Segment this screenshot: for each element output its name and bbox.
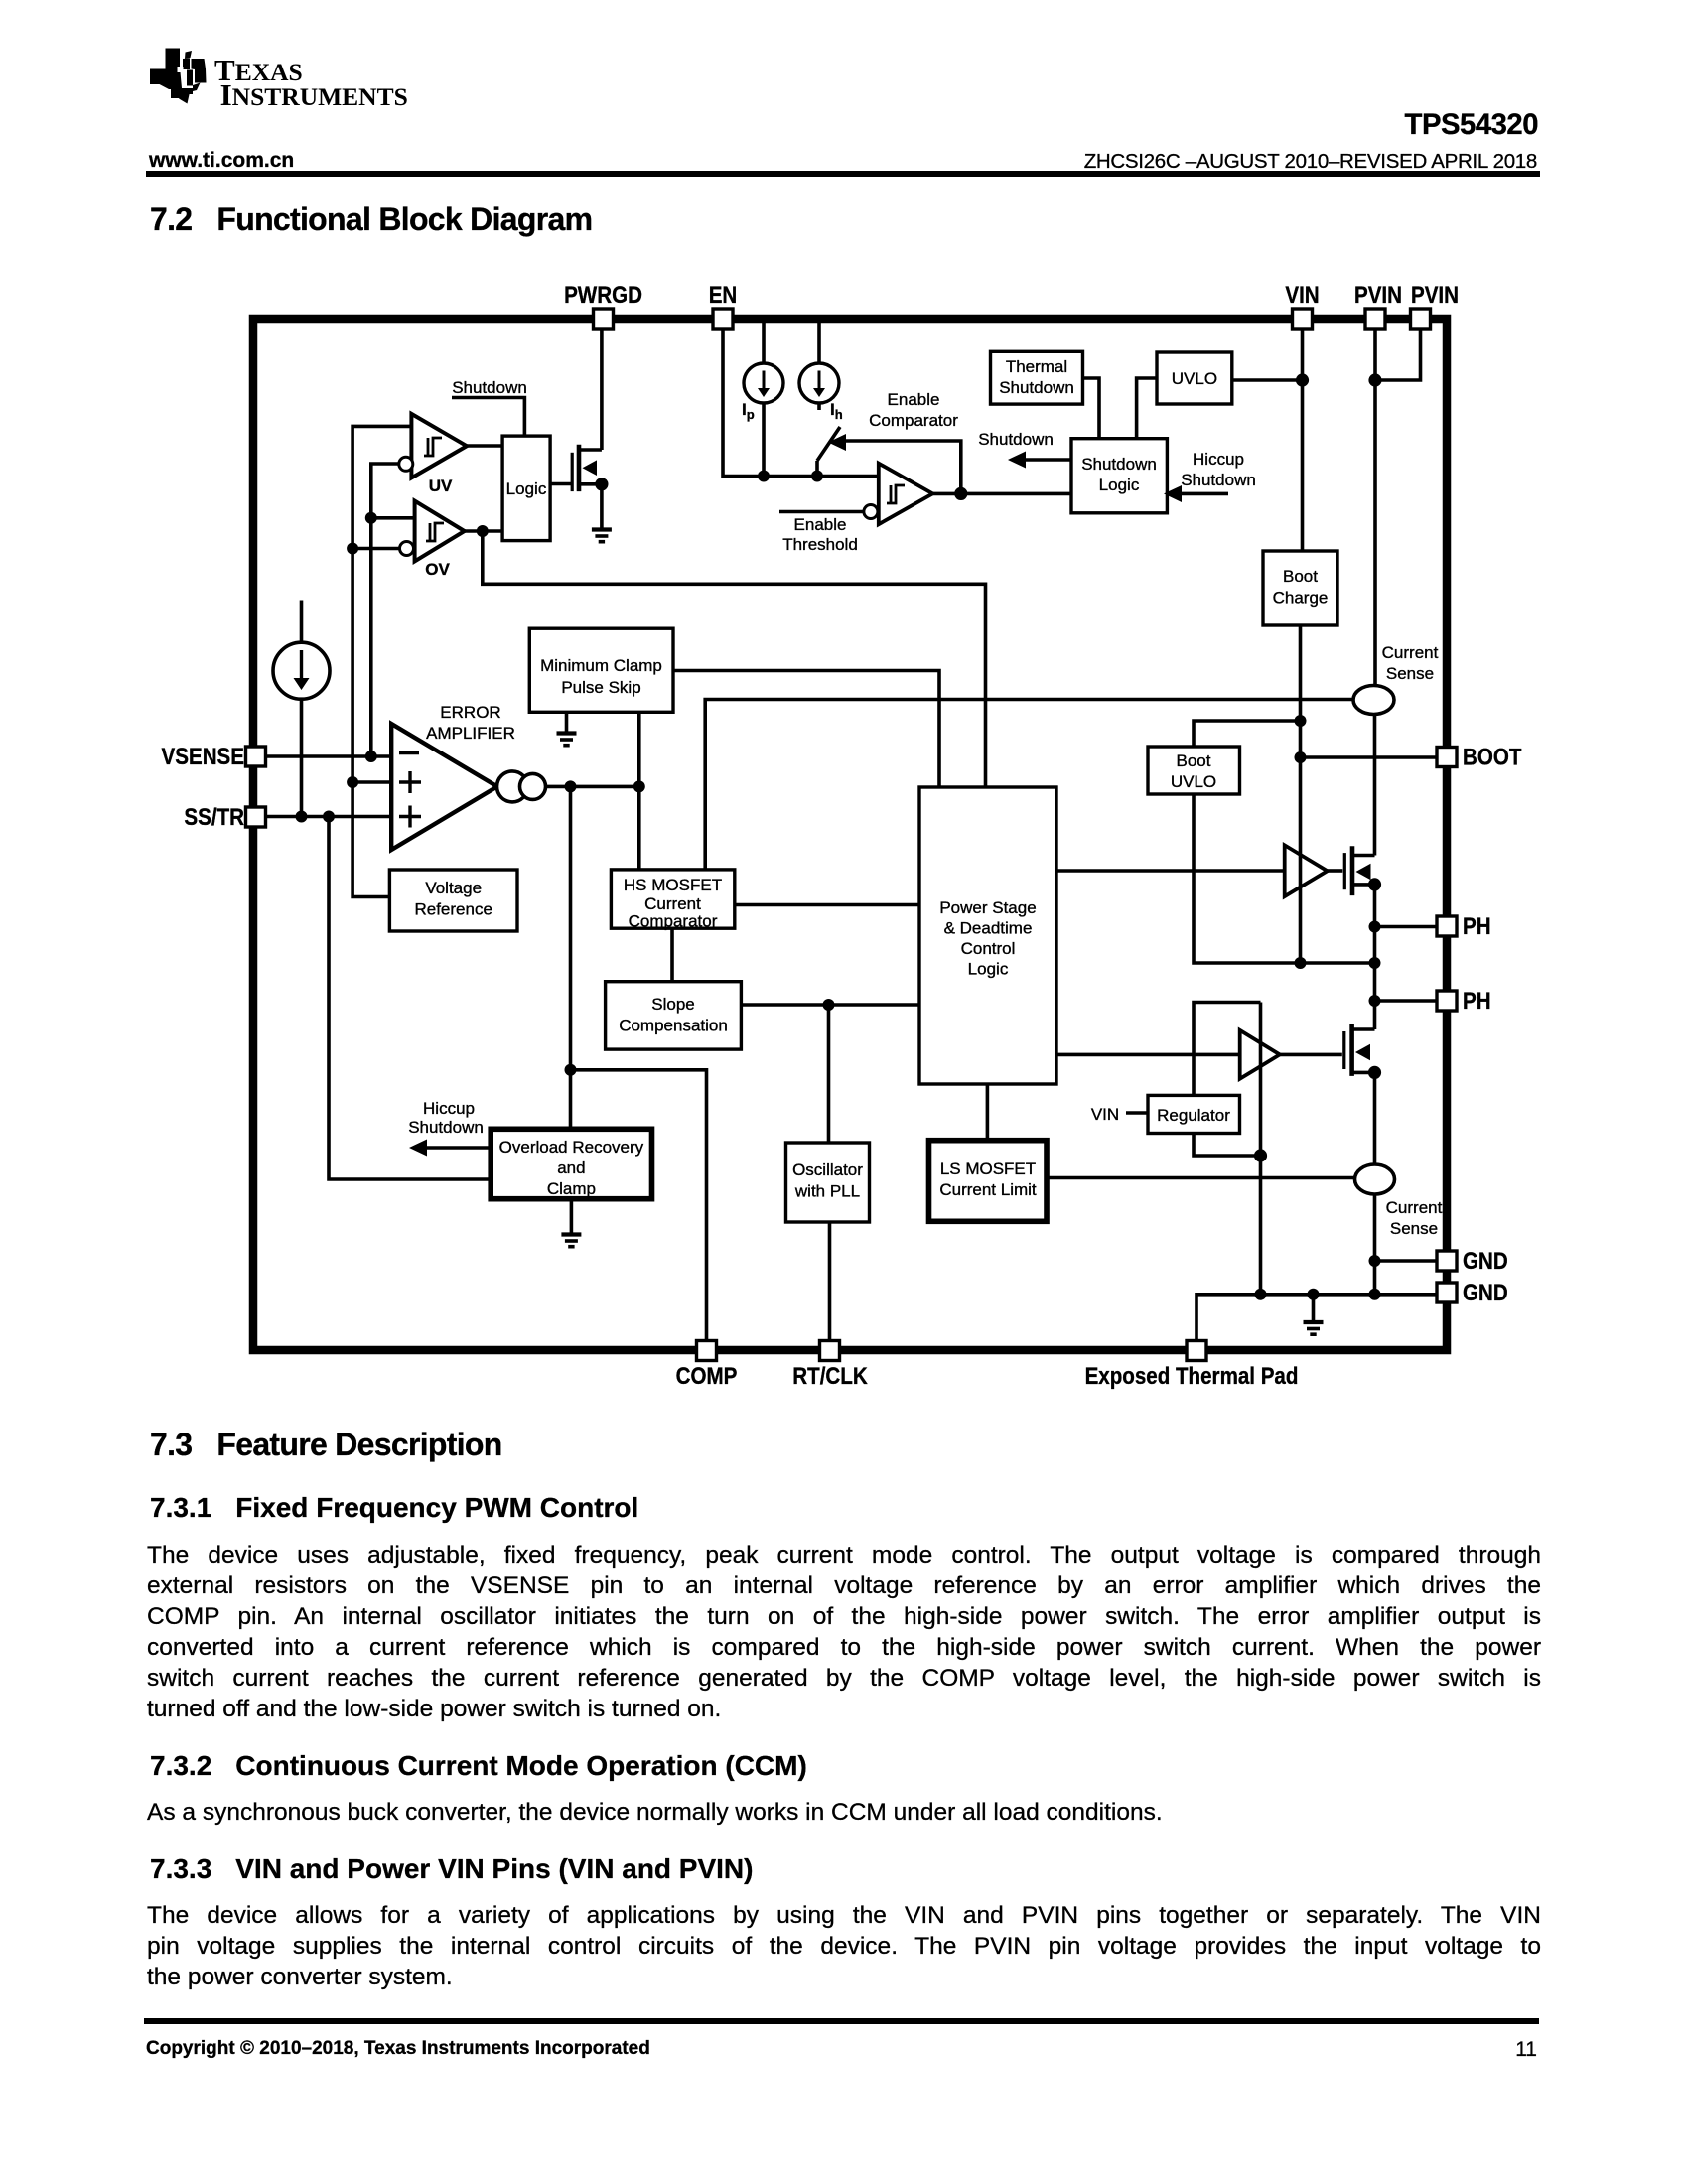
node: GND1 (1369, 1255, 1381, 1267)
svg-text:HS MOSFET: HS MOSFET (624, 876, 722, 894)
svg-text:Shutdown: Shutdown (452, 378, 527, 397)
wire: VIN label to regulator (1126, 1111, 1148, 1115)
node: OV output branch (477, 525, 489, 537)
svg-text:Logic: Logic (968, 960, 1009, 979)
wire: logic to PWRGD gate (550, 482, 572, 486)
svg-text:Current: Current (1386, 1198, 1443, 1217)
wire: VSENSE up to UV bubble (371, 464, 399, 756)
current sense CT1 (high side) (1353, 686, 1394, 715)
node: COMP tee (565, 1064, 577, 1076)
svg-text:EN: EN (709, 281, 738, 308)
driver A1 (high side) (1285, 845, 1328, 896)
node: Q3 source (1368, 1066, 1381, 1079)
node: regulator return / GND (1255, 1289, 1267, 1300)
svg-text:ERROR: ERROR (440, 703, 500, 722)
wire: boot UVLO bottom to PH node (1194, 794, 1375, 963)
current source Ip (744, 363, 783, 403)
svg-text:Ip: Ip (742, 400, 755, 422)
svg-text:SS/TR: SS/TR (184, 803, 244, 830)
svg-text:Voltage: Voltage (425, 879, 482, 897)
transistor Q2 (HS power MOSFET) (1344, 846, 1374, 895)
svg-text:Sense: Sense (1390, 1219, 1438, 1238)
HS mosfet current comparator block (611, 870, 734, 928)
wire: PVIN rail below current sense (1373, 715, 1377, 856)
pin PVIN (2) (1411, 309, 1431, 329)
pin BOOT (1437, 748, 1457, 767)
pin SS/TR (246, 807, 266, 827)
svg-text:LS MOSFET: LS MOSFET (940, 1160, 1036, 1178)
svg-text:with PLL: with PLL (794, 1182, 860, 1201)
wire: EA + input branch (352, 780, 391, 784)
svg-text:Charge: Charge (1273, 589, 1329, 608)
node: EN / Ih switch (811, 471, 823, 482)
svg-text:Slope: Slope (651, 995, 694, 1014)
svg-text:Boot: Boot (1283, 567, 1318, 586)
OV inverting bubble (400, 542, 414, 556)
wire: GND2 line to exposed thermal pad (1196, 1295, 1437, 1341)
wire: Ip top stub (762, 323, 766, 363)
svg-text:Reference: Reference (414, 900, 492, 919)
wire: GND1 pin line (1375, 1259, 1438, 1263)
voltage reference block (389, 870, 517, 931)
wire: slope compensation to power stage (741, 1003, 919, 1007)
svg-text:Power Stage: Power Stage (939, 898, 1036, 917)
wire: GND2 ground stub (1312, 1295, 1316, 1321)
svg-text:RT/CLK: RT/CLK (792, 1362, 868, 1389)
wire: PVIN rail (1373, 329, 1377, 686)
svg-text:UV: UV (429, 477, 453, 495)
node: PH1 (1369, 921, 1381, 933)
section 7.2 heading (150, 202, 592, 238)
svg-text:PH: PH (1463, 987, 1491, 1014)
shutdown logic block (1071, 439, 1167, 513)
device outline box (253, 319, 1447, 1350)
pin RT/CLK (820, 1341, 840, 1361)
wire: PH1 pin line (1375, 925, 1438, 929)
svg-text:Control: Control (961, 939, 1016, 958)
node: rail / GND2 (1369, 1289, 1381, 1300)
svg-text:& Deadtime: & Deadtime (944, 919, 1033, 938)
svg-text:Current: Current (1382, 643, 1439, 662)
wire: switch-node rail (1373, 885, 1377, 1029)
wire: power stage to LS current limit (986, 1084, 990, 1141)
wire: power stage to LS driver (1056, 1053, 1240, 1057)
boot charge block (1263, 551, 1337, 625)
wire: EN pin to enable comparator (723, 329, 879, 477)
node: ground symbol tap (1308, 1289, 1320, 1300)
current source (soft start) (273, 642, 330, 699)
node: SS/TR current source (296, 811, 308, 823)
wire: OV bubble branch (352, 547, 399, 551)
wire: OV output to logic (465, 529, 502, 533)
svg-text:VIN: VIN (1091, 1105, 1119, 1124)
wire: VSENSE line (266, 754, 392, 758)
node: PH2 (1369, 995, 1381, 1007)
pin PWRGD (594, 309, 614, 329)
svg-text:VSENSE: VSENSE (162, 743, 244, 769)
svg-text:AMPLIFIER: AMPLIFIER (426, 724, 515, 743)
svg-text:Current: Current (644, 894, 701, 913)
svg-text:BOOT: BOOT (1463, 744, 1522, 770)
wire: SS current source to SS/TR line (300, 700, 304, 817)
svg-text:Clamp: Clamp (547, 1179, 596, 1198)
transistor Q3 (LS power MOSFET) (1344, 1024, 1375, 1076)
wire: thermal shutdown to shutdown logic (1083, 378, 1099, 439)
wire: comparator output feedback to switch (with arrow) (843, 441, 961, 493)
svg-text:COMP: COMP (676, 1362, 738, 1389)
comparator OV (415, 501, 465, 562)
svg-text:Compensation: Compensation (619, 1017, 728, 1035)
comparator UV (411, 414, 467, 478)
svg-text:Shutdown: Shutdown (1081, 455, 1157, 474)
error amplifier gm output symbol (497, 771, 528, 802)
regulator block (1148, 1095, 1240, 1133)
node: slope / oscillator (823, 999, 835, 1011)
wire: HS comparator to slope compensation (670, 928, 674, 982)
node: VIN / UVLO (1296, 373, 1309, 386)
oscillator with PLL block (786, 1143, 870, 1222)
svg-text:Thermal: Thermal (1006, 357, 1067, 376)
switch S1 blade (817, 427, 840, 477)
wire: boot rail below boot charge (1299, 625, 1303, 963)
wire: COMP pin branch (571, 1070, 707, 1341)
svg-text:PVIN: PVIN (1411, 281, 1459, 308)
node: boot rail / boot UVLO (1295, 715, 1307, 727)
node: boot rail / PH node (1295, 957, 1307, 969)
svg-text:Exposed Thermal Pad: Exposed Thermal Pad (1085, 1362, 1299, 1389)
node: enable comparator output (954, 487, 967, 500)
svg-text:and: and (557, 1159, 585, 1177)
wire: HS comparator output to power stage (735, 903, 919, 907)
svg-text:Comparator: Comparator (869, 411, 958, 430)
wire: min clamp to HS comparator (637, 712, 641, 870)
wire: HS current sense line (705, 700, 1353, 870)
svg-text:Pulse Skip: Pulse Skip (561, 678, 640, 697)
wire: Ih top stub (817, 323, 821, 363)
svg-text:PWRGD: PWRGD (564, 281, 642, 308)
svg-text:Comparator: Comparator (629, 912, 718, 931)
wire: power stage to HS driver (1056, 869, 1285, 873)
transistor Q1 (PWRGD open-drain MOSFET) (572, 445, 602, 491)
wire: PWRGD drain line (600, 329, 604, 450)
wire: overload recovery ground stub (570, 1199, 574, 1233)
svg-text:Current Limit: Current Limit (939, 1180, 1037, 1199)
svg-text:UVLO: UVLO (1172, 369, 1217, 388)
logic block (502, 436, 550, 540)
svg-text:UVLO: UVLO (1171, 772, 1216, 791)
wire: oscillator top stub (827, 1005, 831, 1143)
wire: shutdown output arrow from shutdown logic (1023, 458, 1071, 462)
svg-text:OV: OV (425, 560, 450, 579)
pin PH (2) (1437, 991, 1457, 1011)
svg-text:Sense: Sense (1386, 664, 1434, 683)
wire: Ih bottom stub (817, 403, 821, 410)
thermal shutdown block (991, 351, 1083, 404)
wire: UVLO to shutdown logic (1137, 378, 1157, 439)
pins (terminal squares) (246, 309, 1458, 1361)
node: Q2 source (1368, 878, 1381, 890)
wire: error amp output (546, 785, 639, 789)
ground (overload recovery) (561, 1235, 581, 1247)
wire: enable comparator output to shutdown logic (932, 492, 1071, 496)
svg-text:Shutdown: Shutdown (408, 1118, 484, 1137)
node: SS/TR overload branch (323, 811, 335, 823)
pin GND (1437, 1251, 1457, 1271)
wire: SS current source top stub (300, 601, 304, 643)
wire: BOOT pin line (1301, 755, 1438, 759)
svg-text:Regulator: Regulator (1157, 1106, 1230, 1125)
driver A2 (low side) (1240, 1030, 1280, 1079)
wire: HS driver to gate (1328, 869, 1343, 873)
pin Exposed Thermal Pad (1187, 1341, 1206, 1361)
wire: enable threshold input (779, 510, 864, 514)
svg-text:Logic: Logic (1099, 476, 1140, 494)
wire: Ip bottom stub (762, 403, 766, 477)
node: EA output / COMP branch (565, 780, 577, 792)
wire: UVLO to VIN rail (1232, 378, 1303, 382)
wire: min clamp to power stage top (673, 671, 939, 788)
pin VIN (1293, 309, 1313, 329)
wire: PWRGD mosfet source to ground (600, 484, 604, 528)
wire: PH2 pin line (1375, 999, 1438, 1003)
wire: error amp output down to overload recovery (569, 786, 573, 1129)
boot UVLO block (1148, 747, 1240, 794)
node: EN / Ip (758, 471, 770, 482)
svg-text:Enable: Enable (888, 390, 940, 409)
node: Q1 source (595, 478, 608, 490)
svg-text:Hiccup: Hiccup (1193, 450, 1244, 469)
wire: voltage reference net (UV input / OV bubble / EA+ ) (352, 426, 411, 896)
svg-text:Shutdown: Shutdown (1181, 471, 1256, 489)
svg-text:Oscillator: Oscillator (792, 1160, 863, 1179)
svg-text:Overload Recovery: Overload Recovery (499, 1138, 644, 1157)
svg-text:Ih: Ih (830, 400, 843, 422)
wire: LS current limit to current sense (1047, 1176, 1355, 1180)
wire: LS driver to gate (1280, 1053, 1342, 1057)
pin PH (1437, 916, 1457, 936)
svg-text:PH: PH (1463, 912, 1491, 939)
svg-text:VIN: VIN (1285, 281, 1319, 308)
UV inverting bubble (399, 457, 413, 471)
UVLO block (1157, 352, 1232, 404)
svg-text:Logic: Logic (506, 479, 547, 498)
ground (power ground near GND pins) (1304, 1322, 1324, 1334)
pin EN (713, 309, 733, 329)
pin COMP (697, 1341, 717, 1361)
svg-text:Enable: Enable (794, 515, 847, 534)
pin PVIN (1365, 309, 1385, 329)
node: EA output / HS comparator (633, 780, 645, 792)
wire: boot UVLO top stub (1194, 721, 1301, 747)
pin GND (2) (1437, 1283, 1457, 1302)
wire: SS/TR down to overload recovery input (329, 817, 491, 1180)
svg-text:Boot: Boot (1177, 751, 1211, 770)
comparator U2 (enable comparator) (879, 464, 933, 525)
svg-text:Threshold: Threshold (782, 535, 858, 554)
wire: UV output to logic (467, 444, 502, 448)
TI logo bug (150, 49, 207, 104)
wire: LS mosfet source rail to GND (1373, 1072, 1377, 1164)
wire: OV upper input branch (371, 516, 415, 520)
node: VSENSE/UV-OV tap (365, 751, 377, 762)
wire: RT/CLK pin line (828, 1222, 832, 1341)
wire: regulator loop (1194, 1003, 1261, 1295)
LS mosfet current limit block (929, 1141, 1048, 1222)
minimum clamp pulse skip block (529, 628, 673, 712)
svg-text:GND: GND (1463, 1247, 1508, 1274)
wire: OV logic line to power stage top (483, 531, 986, 787)
svg-text:Hiccup: Hiccup (423, 1099, 475, 1118)
pin VSENSE (246, 747, 266, 766)
slope compensation block (606, 982, 742, 1049)
node: boot rail / BOOT pin (1295, 751, 1307, 763)
node: vref / EA+ (347, 776, 358, 788)
node: PVIN tie (1368, 373, 1381, 386)
wire: hiccup shutdown arrow from overload recovery (424, 1146, 491, 1150)
wire: PVIN2 elbow to PVIN rail (1375, 329, 1421, 380)
overload recovery and clamp block (491, 1129, 651, 1198)
wire: VIN rail (1301, 329, 1305, 551)
node: OV upper input (365, 512, 377, 524)
wire: hiccup shutdown arrow into shutdown logic (1179, 492, 1228, 496)
enable comparator inverting bubble (864, 505, 878, 519)
error amplifier U1 (391, 724, 497, 850)
current source Ih (799, 363, 839, 403)
svg-text:PVIN: PVIN (1354, 281, 1402, 308)
current sense CT2 (low side) (1355, 1164, 1395, 1194)
node: PH rail tie (1369, 957, 1381, 969)
wire: shutdown label to logic top (452, 398, 524, 437)
node: regulator loop bottom (1254, 1149, 1267, 1161)
svg-text:Shutdown: Shutdown (999, 378, 1074, 397)
ground (PWRGD mosfet source) (592, 530, 612, 542)
svg-text:GND: GND (1463, 1279, 1508, 1305)
wire: SS/TR line (266, 815, 392, 819)
node: vref / OV bubble (347, 543, 358, 555)
ground (min clamp) (557, 734, 577, 746)
wire: min clamp ground stub (565, 712, 569, 732)
svg-text:Minimum Clamp: Minimum Clamp (540, 656, 662, 675)
svg-text:Shutdown: Shutdown (978, 430, 1054, 449)
power stage and deadtime control logic block (919, 787, 1056, 1084)
